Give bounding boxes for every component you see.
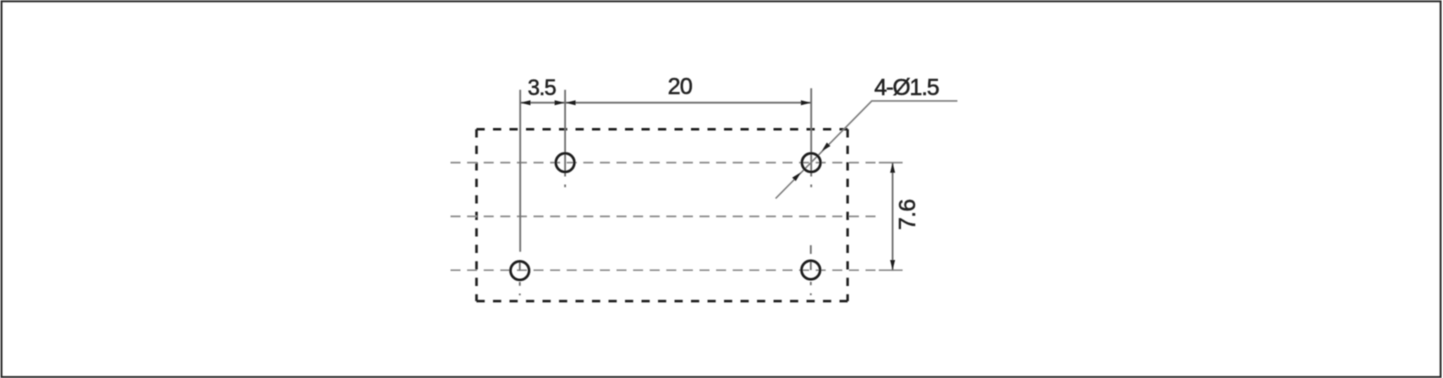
svg-text:7.6: 7.6 [894,199,920,230]
extension line x=811 (20 right) through hole [810,88,812,187]
dimension line 3.5 / 20 [520,102,811,104]
leader arrow lower-left pointing NE [792,171,803,182]
hole H3 crosshair vertical [519,261,521,296]
centerline top row [451,162,878,164]
centerline bottom row [451,269,878,271]
relay body outline (dashed rectangle) [477,129,848,301]
leader line 4-Ø1.5 [776,101,958,199]
leader arrow upper-right pointing SW [820,143,831,154]
7.6 bottom arrow [890,260,895,270]
svg-text:3.5: 3.5 [528,75,557,100]
hole H3 bottom-left [511,261,530,280]
20 right arrow [801,100,811,105]
hole H4 bottom-right [802,261,821,280]
centerline middle [451,215,877,217]
hole H1 top-left [556,153,575,172]
extension line x=520 (3.5 left) [519,90,521,252]
3.5 right arrow [555,100,565,105]
extension line x=565 (3.5 right / 20 left) through hole [564,90,566,187]
arrowheads [521,100,896,270]
20 left arrow [566,100,576,105]
7.6 top arrow [890,163,895,173]
3.5 left arrow [521,100,531,105]
svg-text:4-Ø1.5: 4-Ø1.5 [874,74,939,100]
hole H2 top-right [802,153,821,172]
dimension line 7.6 [892,163,894,271]
hole H4 crosshair vertical [810,245,812,295]
svg-text:20: 20 [668,73,692,99]
